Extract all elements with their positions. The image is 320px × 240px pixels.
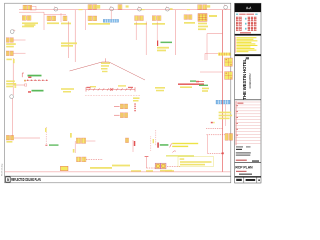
- svg-text:GUANGZHOU: GUANGZHOU: [249, 73, 252, 88]
- svg-text:PLOT-04.dwg: PLOT-04.dwg: [2, 164, 4, 176]
- svg-text:THE WESTIN HOTEL: THE WESTIN HOTEL: [242, 58, 247, 99]
- svg-text:REFLECTED CEILING PLAN: REFLECTED CEILING PLAN: [11, 177, 41, 182]
- svg-text:RCP PLAN: RCP PLAN: [235, 166, 253, 170]
